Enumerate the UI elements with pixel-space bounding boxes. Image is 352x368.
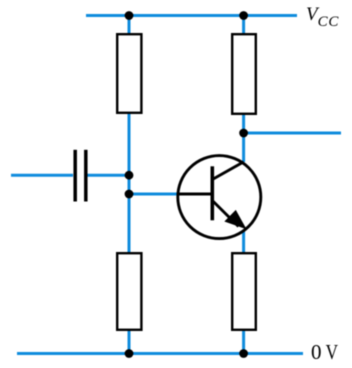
wire emitter to R4 top bbox=[242, 231, 245, 253]
wire left rail: R2 bottom to ground rail bbox=[128, 330, 131, 354]
resistor R3 collector bbox=[232, 34, 256, 114]
wire left rail: top rail to R1 top bbox=[128, 16, 131, 35]
wire base lead bbox=[129, 193, 178, 196]
wire right rail: R3 bottom to collector bbox=[242, 114, 245, 162]
svg-text:0: 0 bbox=[311, 340, 322, 364]
capacitor C1 left plate bbox=[73, 150, 77, 202]
transistor Q1 bbox=[177, 156, 261, 239]
wire ground bottom rail bbox=[17, 352, 303, 355]
node dot: VCC / R3 bbox=[239, 11, 248, 20]
transistor Q1 base lead bbox=[177, 193, 212, 196]
node dot: base node bbox=[125, 190, 134, 199]
wire output tap bbox=[244, 132, 341, 135]
wire VCC top rail bbox=[86, 14, 297, 17]
wire capacitor to divider node bbox=[87, 174, 129, 177]
transistor Q1 emitter lead bbox=[212, 201, 238, 227]
resistor R4 emitter bbox=[232, 253, 256, 330]
capacitor C1 right plate bbox=[84, 150, 88, 202]
transistor Q1 base bar bbox=[211, 166, 215, 220]
wire right rail: R4 bottom to ground rail bbox=[242, 330, 245, 354]
node dot: capacitor / divider bbox=[125, 171, 134, 180]
svg-text:VCC: VCC bbox=[306, 4, 339, 30]
node dot: ground / R4 bbox=[239, 349, 248, 358]
wire left rail: R1 bottom to R2 top (base node) bbox=[128, 113, 131, 253]
node dot: ground / R2 bbox=[125, 349, 134, 358]
transistor Q1 collector lead bbox=[212, 162, 243, 180]
resistor R1 upper bias bbox=[117, 34, 141, 113]
node dot: VCC / R1 bbox=[125, 11, 134, 20]
transistor Q1 circle bbox=[178, 156, 261, 239]
node dot: collector / output bbox=[239, 129, 248, 138]
wire right rail: top rail to R3 top bbox=[242, 16, 245, 35]
resistor R2 lower bias bbox=[117, 253, 141, 330]
wire input lead bbox=[11, 174, 73, 177]
transistor Q1 emitter arrowhead bbox=[226, 211, 245, 228]
svg-text:V: V bbox=[326, 342, 339, 364]
